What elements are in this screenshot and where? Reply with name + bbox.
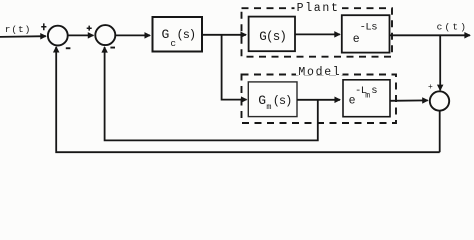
svg-text:c(t): c(t) bbox=[437, 21, 469, 32]
wire S1 to S2 bbox=[68, 34, 94, 36]
wire G(s) to delay block bbox=[295, 33, 340, 35]
wire branch down to model Gm bbox=[222, 35, 247, 100]
block Gm(s) bbox=[248, 82, 297, 117]
svg-text:-Ls: -Ls bbox=[360, 22, 378, 34]
sign + at S1 bbox=[41, 23, 46, 30]
wire Gm to model delay bbox=[297, 99, 340, 101]
wire output to c(t) bbox=[390, 34, 470, 36]
Plant dashed box bbox=[242, 8, 393, 57]
wire S3 down to outer feedback bbox=[439, 111, 441, 153]
wire model delay to S3 bbox=[390, 99, 428, 101]
controller block Gc(s) bbox=[153, 17, 203, 52]
wire Gc to Plant G(s) bbox=[202, 34, 246, 36]
summing junction S3 bbox=[430, 91, 449, 110]
svg-text:m: m bbox=[365, 91, 370, 100]
sign - at S2 bbox=[110, 47, 115, 49]
svg-text:e: e bbox=[353, 33, 360, 46]
wire input r(t) to summer S1 bbox=[0, 35, 46, 38]
wire inner feedback from model tap to S2 bbox=[105, 47, 318, 140]
summing junction S1 bbox=[48, 26, 68, 46]
sign + at S2 bbox=[87, 26, 92, 31]
svg-text:+: + bbox=[428, 83, 433, 92]
Model dashed box bbox=[242, 75, 397, 124]
svg-text:Model: Model bbox=[298, 66, 341, 79]
svg-text:s: s bbox=[371, 85, 377, 97]
svg-text:r(t): r(t) bbox=[5, 24, 31, 35]
block e^-Ls delay bbox=[342, 15, 390, 52]
summing junction S2 bbox=[95, 25, 115, 45]
sign - at S1 bbox=[66, 47, 71, 49]
wire outer feedback bottom to S1 bbox=[56, 47, 440, 152]
label Model bbox=[296, 66, 343, 75]
block e^-Lms model delay bbox=[343, 80, 390, 117]
svg-text:G(s): G(s) bbox=[259, 30, 286, 44]
wire S2 to Gc bbox=[115, 34, 150, 36]
block G(s) bbox=[249, 17, 295, 52]
svg-text:Plant: Plant bbox=[297, 2, 340, 15]
wire branch c(t) down to S3 bbox=[439, 35, 441, 90]
label Plant bbox=[295, 2, 343, 12]
